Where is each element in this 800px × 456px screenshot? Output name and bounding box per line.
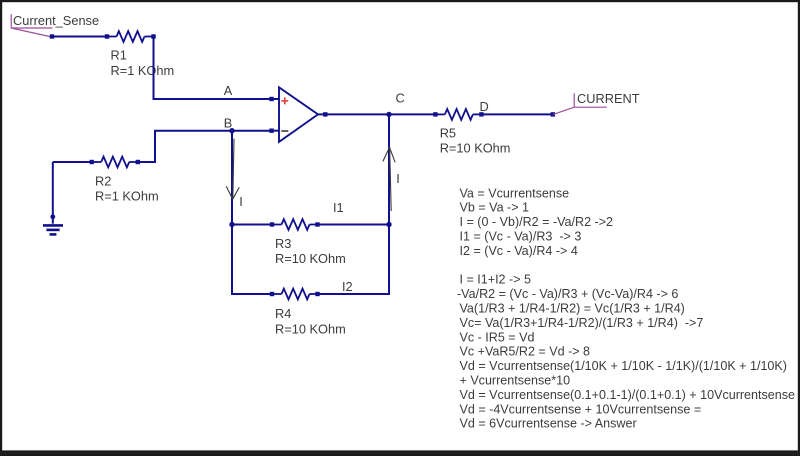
junction dot B-vertical / R3	[229, 222, 234, 227]
wire R2 to op-amp - input (node B)	[138, 131, 272, 162]
wire end dot CURRENT	[551, 112, 555, 116]
resistor R4	[272, 289, 318, 300]
svg-text:+ Vcurrentsense*10: + Vcurrentsense*10	[460, 374, 571, 388]
svg-text:I: I	[396, 171, 400, 186]
op-amp - marking	[281, 130, 288, 132]
svg-text:Vd = -4Vcurrentsense + 10Vcurr: Vd = -4Vcurrentsense + 10Vcurrentsense =	[460, 402, 702, 416]
equations text block	[457, 186, 795, 430]
wire node B down to R3/R4	[232, 131, 272, 294]
pin dot R1.2	[151, 34, 155, 38]
wire node C down to R4	[318, 114, 390, 294]
svg-text:I1: I1	[333, 200, 344, 215]
svg-text:R2: R2	[95, 173, 111, 188]
svg-text:Vd = Vcurrentsense(1/10K + 1/1: Vd = Vcurrentsense(1/10K + 1/10K - 1/1K)…	[460, 359, 787, 373]
svg-text:Vb = Va -> 1: Vb = Va -> 1	[460, 201, 530, 215]
svg-text:R3: R3	[275, 236, 291, 251]
svg-text:B: B	[224, 115, 233, 130]
pin dot R3.1	[270, 222, 274, 226]
wire R1 to op-amp + input (node A)	[154, 37, 273, 100]
svg-text:Vd = Vcurrentsense(0.1+0.1-1)/: Vd = Vcurrentsense(0.1+0.1-1)/(0.1+0.1) …	[460, 388, 795, 402]
wire pin stub + input	[272, 98, 279, 100]
svg-text:A: A	[224, 83, 233, 98]
op-amp + marking	[281, 97, 288, 104]
pin dot R2.2	[136, 160, 140, 164]
svg-text:-Va/R2 = (Vc - Va)/R3 + (Vc-Va: -Va/R2 = (Vc - Va)/R3 + (Vc-Va)/R4 -> 6	[457, 287, 678, 301]
wire B-vertical to R3	[232, 224, 272, 226]
svg-text:R5: R5	[440, 126, 456, 141]
wire pin stub - input	[272, 130, 279, 132]
svg-text:Vd = 6Vcurrentsense -> Answer: Vd = 6Vcurrentsense -> Answer	[460, 417, 637, 431]
pin dot R4.1	[270, 292, 274, 296]
svg-text:I: I	[239, 194, 243, 209]
svg-text:Current_Sense: Current_Sense	[13, 13, 99, 28]
svg-text:R=10 KOhm: R=10 KOhm	[440, 141, 511, 156]
svg-text:C: C	[396, 90, 405, 105]
pin dot R3.2	[315, 222, 319, 226]
ground	[43, 162, 63, 234]
pin dot R5.2	[479, 112, 483, 116]
wire R5 to CURRENT flag	[481, 113, 552, 115]
wire op-amp output to node C	[318, 113, 435, 115]
op-amp U1	[279, 87, 318, 142]
svg-text:Va = Vcurrentsense: Va = Vcurrentsense	[460, 186, 570, 200]
svg-text:R=1 KOhm: R=1 KOhm	[95, 189, 159, 204]
junction dot C-vertical / R3	[386, 222, 391, 227]
pin dot R4.2	[315, 292, 319, 296]
svg-text:I1 = (Vc - Va)/R3 -> 3: I1 = (Vc - Va)/R3 -> 3	[460, 230, 582, 244]
svg-text:CURRENT: CURRENT	[577, 91, 640, 106]
svg-text:R4: R4	[275, 306, 291, 321]
current arrow I (down)	[226, 139, 239, 200]
wire Current_Sense to R1	[52, 36, 107, 38]
pin dot op-amp - input	[269, 129, 273, 133]
pin dot op-amp + input	[269, 97, 273, 101]
svg-text:I2 = (Vc - Va)/R4 -> 4: I2 = (Vc - Va)/R4 -> 4	[460, 244, 578, 258]
junction dot node B	[229, 128, 234, 133]
svg-text:Va(1/R3 + 1/R4-1/R2) = Vc(1/R3: Va(1/R3 + 1/R4-1/R2) = Vc(1/R3 + 1/R4)	[460, 302, 685, 316]
ground pin dot	[50, 214, 55, 219]
node C junction dot	[386, 112, 391, 117]
resistor R2	[92, 157, 138, 168]
svg-text:Vc= Va(1/R3+1/R4-1/R2)/(1/R3 +: Vc= Va(1/R3+1/R4-1/R2)/(1/R3 + 1/R4) ->7	[460, 316, 704, 330]
resistor R1	[107, 31, 154, 42]
pin dot R2.1	[90, 160, 94, 164]
net label Current_Sense	[11, 14, 52, 37]
svg-text:Vc +VaR5/R2 = Vd -> 8: Vc +VaR5/R2 = Vd -> 8	[460, 345, 591, 359]
resistor R3	[272, 219, 318, 230]
svg-text:D: D	[480, 99, 489, 114]
svg-text:R=1 KOhm: R=1 KOhm	[111, 63, 175, 78]
svg-text:I = (0 - Vb)/R2 = -Va/R2 ->2: I = (0 - Vb)/R2 = -Va/R2 ->2	[460, 215, 614, 229]
wire R3 to node C vertical	[318, 224, 390, 226]
net label CURRENT	[553, 93, 607, 114]
svg-text:R=10 KOhm: R=10 KOhm	[275, 251, 346, 266]
svg-text:R1: R1	[111, 47, 127, 62]
pin dot R5.1	[433, 112, 437, 116]
pin dot R1.1	[105, 34, 109, 38]
wire ground corner to R2	[53, 161, 92, 163]
current arrow I (up)	[383, 147, 395, 211]
svg-text:Vc - IR5 = Vd: Vc - IR5 = Vd	[460, 330, 535, 344]
wire end dot Current_Sense	[50, 34, 54, 38]
svg-text:R=10 KOhm: R=10 KOhm	[275, 321, 346, 336]
resistor R5	[435, 109, 481, 120]
svg-text:I2: I2	[342, 279, 353, 294]
svg-text:I = I1+I2 -> 5: I = I1+I2 -> 5	[460, 273, 532, 287]
pin dot op-amp output	[323, 112, 327, 116]
